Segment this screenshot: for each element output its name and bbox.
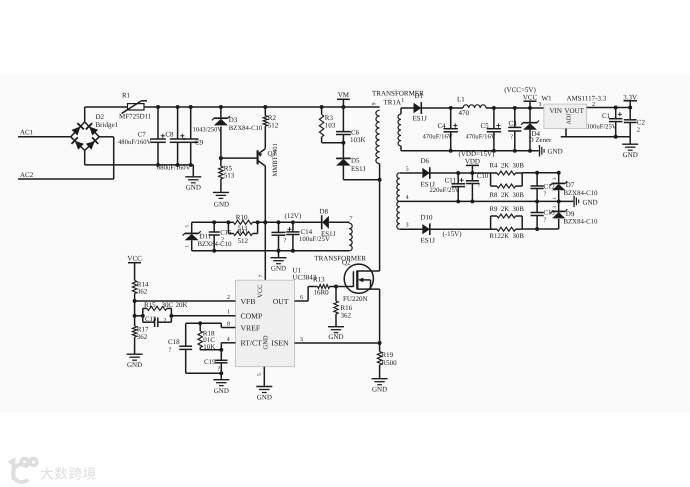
svg-text:C3: C3	[509, 120, 518, 128]
svg-text:L1: L1	[457, 96, 465, 104]
svg-text:Q2: Q2	[342, 259, 351, 267]
svg-text:2: 2	[227, 295, 230, 301]
svg-text:R11: R11	[238, 229, 249, 236]
svg-text:4: 4	[406, 195, 409, 201]
svg-text:R9 2K 30B: R9 2K 30B	[490, 206, 525, 213]
svg-text:D2: D2	[96, 113, 105, 121]
svg-text:4: 4	[227, 337, 230, 343]
svg-text:C9: C9	[195, 138, 204, 146]
svg-text:7: 7	[350, 216, 353, 222]
svg-text:R10: R10	[236, 213, 248, 221]
svg-text:VIN: VIN	[550, 107, 562, 115]
svg-text:AC2: AC2	[20, 171, 34, 179]
svg-text:RT/CT: RT/CT	[241, 339, 263, 348]
svg-text:VREF: VREF	[241, 323, 261, 332]
svg-text:512: 512	[238, 237, 249, 245]
svg-text:VM: VM	[338, 91, 350, 99]
svg-text:D8: D8	[320, 207, 329, 215]
svg-text:D1: D1	[415, 92, 424, 100]
svg-text:D3: D3	[229, 116, 238, 124]
svg-text:C5: C5	[481, 122, 490, 130]
svg-text:362: 362	[137, 288, 148, 296]
svg-text:D5: D5	[351, 157, 360, 165]
svg-text:16R0: 16R0	[314, 289, 330, 297]
svg-text:?: ?	[221, 237, 224, 244]
svg-text:ES1J: ES1J	[421, 236, 436, 244]
svg-text:TRANSFORMER: TRANSFORMER	[314, 254, 366, 262]
svg-text:C15: C15	[220, 229, 232, 236]
svg-text:513: 513	[224, 171, 235, 179]
svg-text:GND: GND	[583, 198, 598, 206]
svg-text:2: 2	[637, 127, 640, 134]
svg-text:R13: R13	[313, 275, 325, 283]
svg-text:?: ?	[169, 346, 172, 353]
svg-text:C14: C14	[301, 228, 313, 236]
svg-text:D9: D9	[566, 210, 575, 218]
svg-text:GND: GND	[263, 335, 270, 349]
svg-text:大数跨境: 大数跨境	[40, 467, 97, 482]
svg-text:?: ?	[544, 217, 547, 224]
svg-text:D Zener: D Zener	[529, 137, 552, 144]
svg-text:D6: D6	[421, 157, 430, 165]
svg-text:GND: GND	[186, 184, 201, 192]
svg-text:GND: GND	[214, 387, 229, 395]
svg-text:Bridge1: Bridge1	[96, 121, 119, 129]
svg-text:30C: 30C	[162, 301, 174, 309]
svg-text:R4 2K 30B: R4 2K 30B	[490, 162, 525, 169]
svg-text:VCC: VCC	[523, 94, 538, 102]
svg-text:C7: C7	[138, 131, 147, 139]
svg-text:3: 3	[406, 223, 409, 229]
svg-text:3: 3	[300, 337, 303, 343]
svg-text:BZX84-C10: BZX84-C10	[564, 190, 599, 197]
svg-text:GND: GND	[372, 386, 387, 394]
svg-text:GND: GND	[271, 264, 286, 272]
svg-text:GND: GND	[623, 151, 638, 159]
svg-text:GND: GND	[127, 361, 142, 369]
svg-text:?: ?	[164, 318, 167, 325]
svg-text:AMS1117-3.3: AMS1117-3.3	[567, 94, 607, 102]
svg-text:?: ?	[478, 182, 481, 189]
svg-text:20K: 20K	[176, 301, 188, 309]
svg-text:R19: R19	[382, 351, 394, 359]
svg-text:ES1J: ES1J	[413, 115, 428, 123]
svg-text:512: 512	[268, 121, 279, 129]
svg-text:680uF/160V: 680uF/160V	[157, 165, 191, 172]
svg-text:?: ?	[510, 134, 513, 141]
svg-text:VCC: VCC	[127, 255, 142, 263]
svg-text:ES1J: ES1J	[351, 165, 366, 173]
svg-text:103: 103	[325, 122, 336, 130]
svg-text:FU220N: FU220N	[343, 295, 368, 303]
svg-text:362: 362	[137, 333, 148, 341]
svg-text:R1: R1	[122, 92, 131, 100]
svg-text:D11: D11	[200, 232, 212, 240]
svg-text:R15: R15	[144, 301, 156, 309]
svg-text:1: 1	[227, 310, 230, 316]
svg-text:VDD: VDD	[465, 158, 480, 166]
svg-text:5: 5	[257, 373, 263, 376]
svg-text:GND: GND	[548, 148, 563, 156]
svg-text:(12V): (12V)	[285, 212, 302, 220]
svg-text:ADJ: ADJ	[567, 113, 573, 125]
svg-text:C2: C2	[637, 118, 646, 126]
svg-text:BZX84-C10: BZX84-C10	[564, 218, 599, 225]
svg-text:470uF/16V: 470uF/16V	[466, 134, 496, 141]
svg-text:R122K 30B: R122K 30B	[490, 233, 525, 240]
svg-text:100uF/25V: 100uF/25V	[299, 236, 330, 243]
svg-text:?: ?	[544, 191, 547, 198]
svg-text:1043/250V: 1043/250V	[193, 127, 223, 134]
svg-text:AC1: AC1	[20, 129, 34, 137]
svg-text:8: 8	[227, 321, 230, 327]
svg-text:?: ?	[284, 237, 287, 244]
svg-text:(-15V): (-15V)	[443, 230, 463, 238]
svg-text:MF725D11: MF725D11	[119, 113, 152, 121]
svg-text:VCC: VCC	[257, 285, 264, 298]
svg-text:C13: C13	[145, 316, 157, 323]
svg-text:6: 6	[300, 295, 303, 301]
svg-text:103K: 103K	[350, 136, 366, 144]
svg-text:C10: C10	[477, 173, 489, 180]
svg-text:COMP: COMP	[241, 312, 263, 321]
svg-text:ISEN: ISEN	[271, 339, 289, 348]
svg-text:C8: C8	[165, 131, 174, 139]
svg-text:D10: D10	[421, 214, 434, 222]
svg-text:9: 9	[371, 102, 377, 105]
svg-text:480uF/160V: 480uF/160V	[118, 139, 152, 146]
svg-text:7: 7	[259, 275, 265, 278]
svg-text:R8 2K 30B: R8 2K 30B	[490, 192, 525, 199]
svg-text:GND: GND	[328, 333, 343, 341]
svg-text:C11: C11	[445, 176, 457, 184]
svg-text:?: ?	[218, 366, 221, 373]
svg-text:GND: GND	[214, 201, 229, 209]
svg-text:W1: W1	[542, 94, 553, 102]
svg-text:(VDD=15V): (VDD=15V)	[459, 150, 495, 158]
svg-text:C19: C19	[204, 358, 216, 366]
svg-text:C1: C1	[602, 112, 611, 120]
svg-text:MMBT3401: MMBT3401	[272, 143, 279, 176]
svg-text:TR1A: TR1A	[384, 98, 402, 106]
svg-text:220uF/25V: 220uF/25V	[430, 187, 460, 194]
svg-text:470uF/16V: 470uF/16V	[423, 134, 453, 141]
svg-text:470: 470	[459, 109, 470, 117]
svg-text:5: 5	[406, 167, 409, 173]
svg-text:GND: GND	[257, 394, 272, 402]
svg-text:VFB: VFB	[241, 297, 256, 306]
svg-text:BZX84-C10: BZX84-C10	[229, 125, 263, 132]
svg-text:362: 362	[341, 311, 352, 319]
svg-text:100uF/25V: 100uF/25V	[587, 123, 617, 130]
svg-text:R500: R500	[382, 359, 398, 367]
svg-text:D7: D7	[566, 181, 575, 189]
svg-text:2: 2	[592, 102, 595, 108]
svg-text:1: 1	[401, 98, 404, 104]
svg-text:OUT: OUT	[273, 297, 289, 306]
svg-text:3: 3	[539, 102, 542, 108]
svg-text:C4: C4	[438, 122, 447, 130]
svg-text:C18: C18	[168, 338, 180, 346]
